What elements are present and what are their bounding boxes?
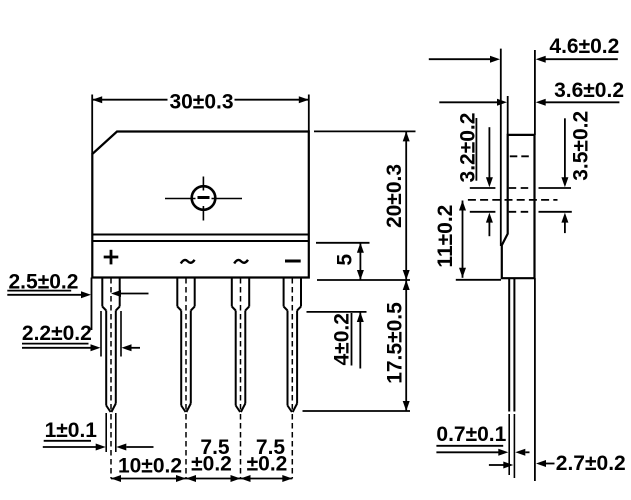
dim 2.5 arrow at lead centerline	[111, 290, 149, 297]
lead 3 centerline	[240, 278, 242, 479]
body band lower line	[92, 240, 308, 242]
side lead exit centerline	[468, 199, 558, 201]
dim 3.6 left tail	[439, 99, 507, 106]
dim 17.5 extension bottom	[303, 410, 411, 412]
side lead extension lines	[509, 414, 514, 478]
ext line B right edge	[534, 50, 536, 481]
dim 20 extension top	[314, 130, 416, 132]
side hidden line row 3	[470, 211, 572, 213]
lead 4 outline	[284, 278, 301, 412]
hole center mark	[165, 177, 242, 221]
dim 3.6 right leader	[536, 99, 620, 106]
dim 2.2 label	[22, 322, 92, 345]
ac terminal symbol 1	[181, 260, 195, 264]
dim 2.2 right arrow	[122, 344, 141, 351]
dim 3.6 label	[554, 79, 624, 102]
dim 11 bottom extension	[456, 279, 501, 281]
svg-text:5: 5	[334, 254, 357, 266]
dim 4.6 left tail	[429, 56, 500, 63]
dim 30 extension line right	[308, 95, 310, 132]
dim 2.5 label	[9, 271, 79, 294]
dim 30 extension line left	[91, 95, 93, 155]
dim 2.7 leader	[536, 460, 555, 467]
dim 1 right arrow	[116, 444, 153, 451]
svg-text:0.7±0.1: 0.7±0.1	[436, 423, 506, 446]
svg-text:±0.2: ±0.2	[191, 452, 232, 475]
svg-text:4±0.2: 4±0.2	[331, 313, 354, 365]
dim 2.7 label	[556, 452, 626, 475]
dim 0.7 underline	[436, 445, 503, 447]
dim 7.5 label second	[247, 436, 288, 476]
dim 4 label	[331, 313, 354, 365]
dim 2.2 underline	[22, 343, 89, 345]
svg-text:11±0.2: 11±0.2	[434, 205, 457, 268]
dim 11 label	[434, 205, 457, 268]
dim 2.5 leader	[7, 291, 91, 298]
side hidden line row 2	[470, 187, 571, 189]
dim 30 line	[92, 96, 309, 103]
dim 20 line	[403, 131, 410, 280]
dim 3.2 line	[486, 127, 493, 236]
svg-text:30±0.3: 30±0.3	[169, 91, 233, 114]
body band upper line	[92, 234, 308, 236]
ac terminal symbol 2	[234, 260, 248, 264]
side lead	[509, 278, 514, 411]
dim 11 line	[459, 201, 466, 278]
dim 0.7 label	[436, 423, 506, 446]
dim 2.5 underline	[7, 290, 71, 292]
mounting hole	[192, 186, 216, 210]
ext line A overall-thickness left	[500, 49, 502, 246]
svg-text:1±0.1: 1±0.1	[45, 419, 98, 442]
dim 1 underline	[44, 440, 91, 442]
svg-text:17.5±0.5: 17.5±0.5	[384, 302, 407, 384]
lead 4 centerline	[291, 278, 293, 479]
svg-text:4.6±0.2: 4.6±0.2	[549, 35, 619, 58]
dim 2.2 leader	[22, 344, 101, 351]
dim 4 extension line	[307, 311, 367, 313]
dim 17.5 label	[384, 302, 407, 384]
dim 2.5 body edge extension	[91, 278, 93, 331]
svg-text:3.2±0.2: 3.2±0.2	[457, 113, 480, 183]
dim 30 label	[169, 91, 233, 114]
dim 7.5 label first	[191, 436, 232, 476]
dim 4.6 right leader	[536, 56, 618, 63]
lead 3 outline	[232, 278, 249, 412]
dim 1 leader	[43, 444, 106, 451]
dim 3.2 label	[457, 113, 480, 183]
dim 1 label	[45, 419, 98, 442]
dim 20/17.5 extension middle	[317, 279, 410, 281]
lead 2 outline	[177, 278, 194, 412]
svg-text:3.5±0.2: 3.5±0.2	[569, 111, 592, 181]
side view body outline	[502, 135, 535, 278]
svg-text:2.7±0.2: 2.7±0.2	[556, 452, 626, 475]
dim 5 label	[334, 254, 357, 266]
dim 17.5 line	[403, 280, 410, 411]
lead 2 centerline	[185, 278, 187, 479]
plus terminal symbol	[104, 250, 119, 265]
dim 10 label	[118, 454, 182, 477]
svg-text:10±0.2: 10±0.2	[118, 454, 182, 477]
dim 3.5 line	[561, 118, 568, 233]
dim 5 extension top	[316, 242, 370, 244]
minus terminal symbol	[285, 260, 301, 263]
dim 4 label underline	[351, 313, 353, 366]
pin pitch dimension line	[111, 475, 292, 482]
dim 4.6 label	[549, 35, 619, 58]
svg-text:3.6±0.2: 3.6±0.2	[554, 79, 624, 102]
svg-text:20±0.3: 20±0.3	[383, 164, 406, 228]
dim 0.7 leader	[436, 449, 529, 456]
dim 1 extension lines	[106, 413, 116, 452]
lead 1 centerline	[110, 278, 112, 479]
dim 3.5 label	[569, 111, 592, 181]
svg-text:2.2±0.2: 2.2±0.2	[22, 322, 92, 345]
lead 1 outline	[102, 278, 119, 412]
dim 20 label	[383, 164, 406, 228]
dim 5 line	[357, 243, 364, 280]
side hidden line row 1	[510, 155, 530, 157]
dim 3.2 underline	[475, 118, 477, 181]
dim 2.2 extension lines	[101, 311, 121, 357]
svg-text:±0.2: ±0.2	[247, 452, 288, 475]
dim 0.7 second arrow	[489, 462, 513, 469]
package body front view outline	[92, 132, 308, 278]
ext line C body left edge up	[507, 96, 509, 135]
dim 4 line	[357, 312, 364, 369]
